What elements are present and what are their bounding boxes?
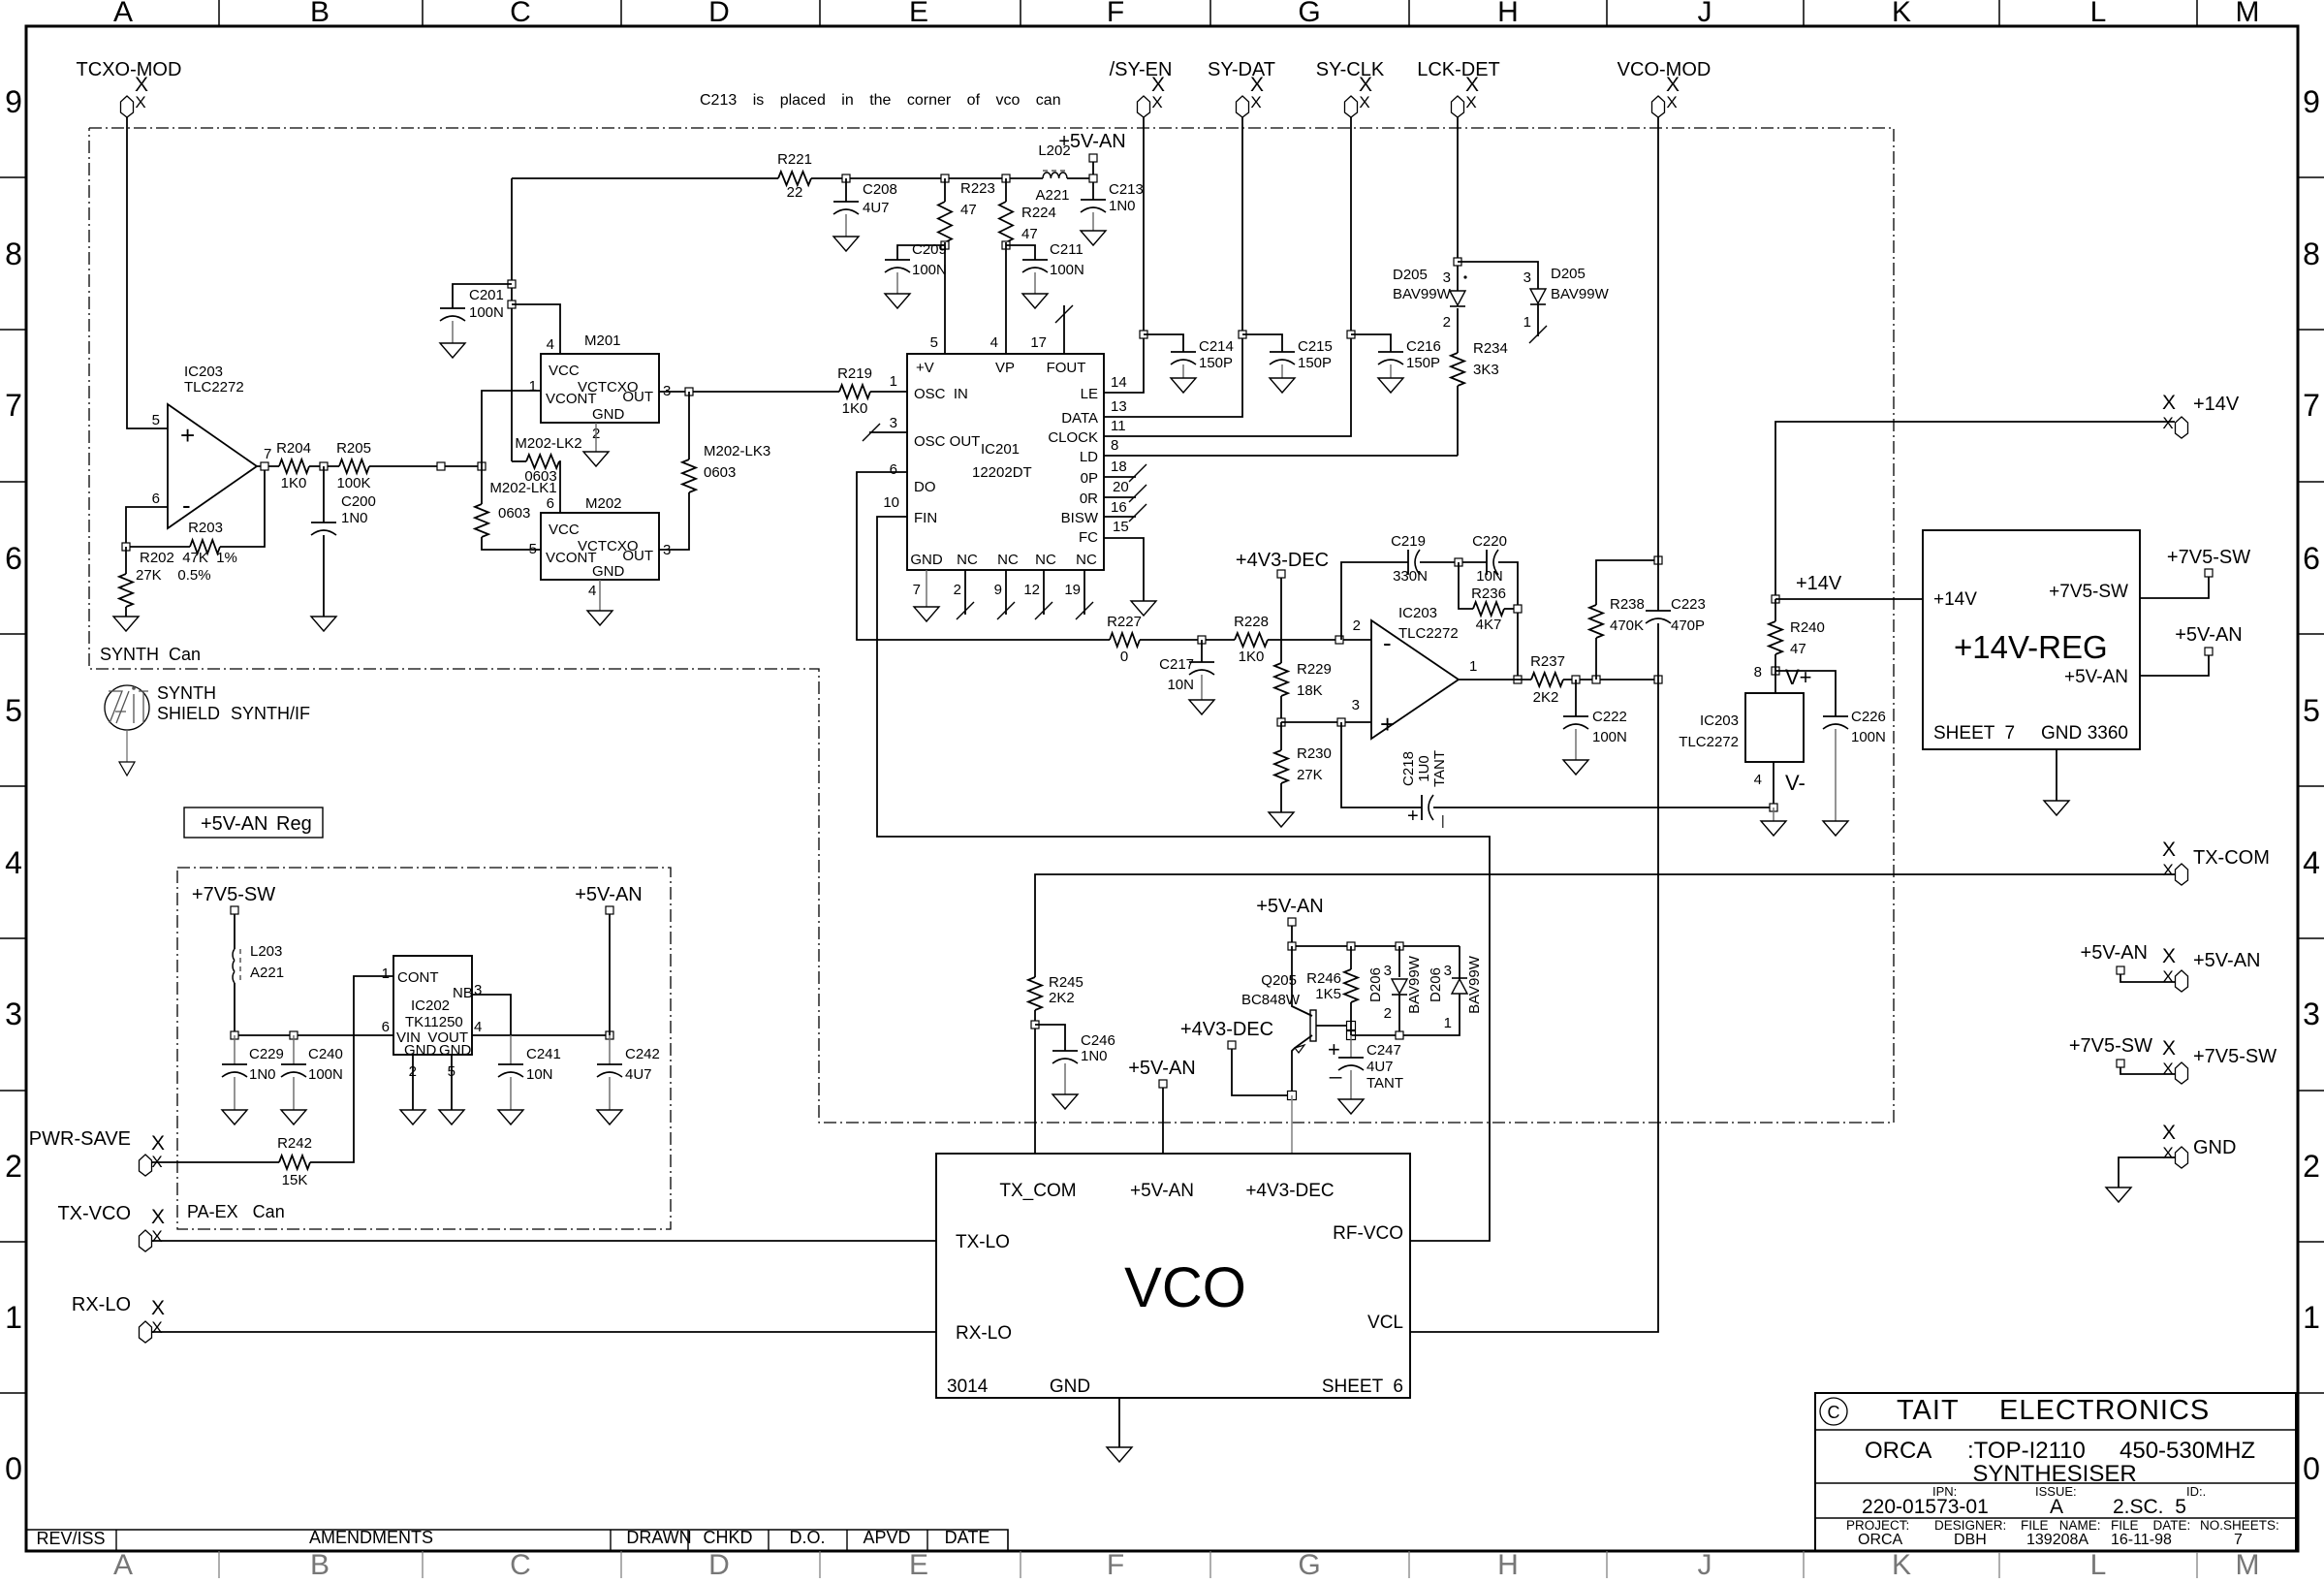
svg-text:+: + xyxy=(1380,710,1395,739)
junction xyxy=(1140,331,1147,338)
svg-text:4U7: 4U7 xyxy=(863,200,890,216)
capacitor C200 1N0 xyxy=(323,466,325,522)
capacitor C242 4U7 xyxy=(609,1035,611,1064)
svg-text:220-01573-01: 220-01573-01 xyxy=(1862,1496,1989,1518)
svg-text:C220: C220 xyxy=(1472,533,1507,550)
wire xyxy=(1774,654,1776,693)
svg-text:0R: 0R xyxy=(1080,491,1098,507)
svg-text:A221: A221 xyxy=(250,965,284,981)
svg-text:GND: GND xyxy=(592,406,625,423)
ground xyxy=(2106,1187,2131,1202)
svg-text:0: 0 xyxy=(1120,649,1128,665)
wire to CONT xyxy=(310,976,393,1162)
svg-text:10N: 10N xyxy=(1476,568,1503,585)
wire VCO GND xyxy=(1118,1398,1120,1447)
svg-text:BAV99W: BAV99W xyxy=(1393,286,1452,302)
svg-text:3014: 3014 xyxy=(947,1377,989,1397)
capacitor C246 1N0 xyxy=(1035,1025,1065,1051)
svg-text:C247: C247 xyxy=(1366,1042,1401,1059)
svg-text:AMENDMENTS: AMENDMENTS xyxy=(309,1528,433,1547)
svg-text:+: + xyxy=(180,421,195,450)
junction xyxy=(1089,174,1097,182)
junction xyxy=(1335,636,1343,644)
svg-text:R227: R227 xyxy=(1107,614,1142,630)
svg-text:20: 20 xyxy=(1113,479,1129,495)
resistor R219 1K0 xyxy=(839,385,870,398)
svg-text:0P: 0P xyxy=(1081,470,1098,487)
svg-text:8: 8 xyxy=(2303,237,2320,271)
svg-text:TX-COM: TX-COM xyxy=(2193,847,2270,869)
svg-text:2: 2 xyxy=(1443,314,1451,331)
wire LE to /SY-EN xyxy=(1104,117,1144,393)
svg-text:2: 2 xyxy=(1384,1005,1392,1022)
svg-text:47: 47 xyxy=(1021,226,1038,242)
wire to op-amp minus xyxy=(1268,639,1371,641)
svg-text:R234: R234 xyxy=(1473,340,1508,357)
resistor R242 15K xyxy=(279,1156,310,1169)
wire R224 to VP pin4 xyxy=(1005,242,1007,354)
svg-text:18: 18 xyxy=(1111,459,1127,475)
resistor R230 27K xyxy=(1280,722,1282,750)
svg-text:+14V: +14V xyxy=(2193,394,2240,415)
svg-text:DATE: DATE xyxy=(945,1528,990,1547)
svg-text:X: X xyxy=(151,1206,165,1228)
svg-text:APVD: APVD xyxy=(863,1528,910,1547)
svg-text:2.SC. 5: 2.SC. 5 xyxy=(2113,1496,2186,1518)
pin no-connect stub xyxy=(1104,496,1136,498)
svg-text:R221: R221 xyxy=(777,151,812,168)
svg-text:1: 1 xyxy=(890,373,897,390)
svg-text:17: 17 xyxy=(1030,334,1047,351)
svg-text:SYNTH Can: SYNTH Can xyxy=(100,645,201,664)
wire xyxy=(309,465,339,467)
wire VCONT link to M201 xyxy=(482,391,541,466)
svg-text:GND: GND xyxy=(404,1042,437,1059)
svg-text:BISW: BISW xyxy=(1061,510,1099,526)
svg-text:4: 4 xyxy=(547,336,554,353)
svg-text:8: 8 xyxy=(5,237,22,271)
svg-text:R224: R224 xyxy=(1021,205,1056,221)
svg-text:5: 5 xyxy=(2303,693,2320,728)
wire PWR-SAVE xyxy=(152,1161,279,1163)
junction xyxy=(261,462,268,470)
svg-text:R230: R230 xyxy=(1297,745,1332,762)
ground xyxy=(1052,1094,1078,1109)
svg-text:SY-DAT: SY-DAT xyxy=(1208,59,1275,80)
junction xyxy=(231,1031,238,1039)
ground xyxy=(1131,601,1156,616)
svg-text:R203: R203 xyxy=(188,520,223,536)
svg-text:3: 3 xyxy=(1352,697,1360,713)
junction xyxy=(1772,667,1779,675)
svg-text:2: 2 xyxy=(1353,617,1361,634)
svg-text:LCK-DET: LCK-DET xyxy=(1417,59,1500,80)
svg-text:L: L xyxy=(2090,1549,2107,1578)
svg-text:REV/ISS: REV/ISS xyxy=(36,1529,105,1548)
no-connect xyxy=(1537,304,1539,336)
wire xyxy=(2120,974,2176,982)
svg-text:2K2: 2K2 xyxy=(1533,689,1559,706)
pin no-connect stub xyxy=(1104,476,1136,478)
svg-text:4: 4 xyxy=(990,334,998,351)
svg-text:100N: 100N xyxy=(469,304,504,321)
svg-text:R223: R223 xyxy=(960,180,995,197)
svg-text:16: 16 xyxy=(1111,499,1127,516)
ground xyxy=(1338,1099,1364,1114)
svg-text:X: X xyxy=(2162,414,2173,432)
capacitor C213 1N0 xyxy=(1092,178,1094,200)
svg-text:X: X xyxy=(151,1318,162,1337)
svg-text:1: 1 xyxy=(1523,314,1531,331)
svg-text:X: X xyxy=(151,1297,165,1319)
svg-text:+5V-AN: +5V-AN xyxy=(2081,942,2148,964)
svg-text:F: F xyxy=(1107,0,1124,28)
svg-text:A: A xyxy=(113,1549,133,1578)
svg-text:10: 10 xyxy=(883,494,899,511)
junction xyxy=(1454,258,1461,266)
svg-text:+5V-AN: +5V-AN xyxy=(1130,1181,1194,1201)
svg-text:D: D xyxy=(708,1549,730,1578)
svg-text:C: C xyxy=(510,0,531,28)
svg-text:12202DT: 12202DT xyxy=(972,464,1032,481)
svg-text:R240: R240 xyxy=(1790,619,1825,636)
capacitor C222 100N xyxy=(1575,680,1577,716)
svg-text:OSC OUT: OSC OUT xyxy=(914,433,980,450)
junction xyxy=(941,241,949,249)
svg-text:X: X xyxy=(2162,839,2176,861)
svg-text:1: 1 xyxy=(382,966,390,982)
svg-text:9: 9 xyxy=(994,582,1002,598)
svg-text:+5V-AN: +5V-AN xyxy=(1256,896,1323,917)
svg-text:+V: +V xyxy=(916,360,934,376)
wire M201 OUT row xyxy=(659,391,839,393)
svg-text:C223: C223 xyxy=(1671,596,1706,613)
ground xyxy=(1270,378,1295,393)
resistor R203 47K 1% (feedback) xyxy=(126,546,190,548)
junction xyxy=(122,543,130,551)
svg-text:+7V5-SW: +7V5-SW xyxy=(2069,1035,2152,1057)
net +5V-AN xyxy=(1089,154,1097,162)
wire to VCO xyxy=(1291,1095,1293,1154)
svg-text:R219: R219 xyxy=(837,365,872,382)
svg-text:C211: C211 xyxy=(1050,241,1083,258)
svg-text:4: 4 xyxy=(1754,772,1762,788)
svg-text:+5V-AN: +5V-AN xyxy=(575,884,642,905)
junction xyxy=(1654,556,1662,564)
svg-text:RX-LO: RX-LO xyxy=(72,1294,131,1315)
svg-text:NC: NC xyxy=(957,552,978,568)
svg-text:SYNTH: SYNTH xyxy=(157,683,216,703)
diode D206 BAV99W (b) xyxy=(1459,946,1460,979)
svg-text:5: 5 xyxy=(529,541,537,557)
svg-text:|: | xyxy=(1441,812,1445,828)
wire NB to VOUT xyxy=(472,995,511,1035)
svg-text:100N: 100N xyxy=(1050,262,1084,278)
junction xyxy=(1770,804,1777,811)
svg-text:H: H xyxy=(1497,1549,1519,1578)
svg-text:VCONT: VCONT xyxy=(546,550,597,566)
svg-text:GND: GND xyxy=(1050,1377,1090,1397)
svg-text:C: C xyxy=(1828,1403,1840,1422)
svg-text:CHKD: CHKD xyxy=(703,1528,752,1547)
svg-text:R204: R204 xyxy=(276,440,311,457)
wire to OSC IN xyxy=(870,391,907,393)
svg-text:9: 9 xyxy=(2303,84,2320,119)
wire TX-VCO to TX-LO xyxy=(152,1240,936,1242)
svg-text:X: X xyxy=(2162,1037,2176,1060)
wire xyxy=(1232,1049,1292,1095)
ground xyxy=(440,343,465,358)
ground xyxy=(1081,231,1106,245)
svg-text:13: 13 xyxy=(1111,398,1127,415)
svg-text:470K: 470K xyxy=(1610,617,1644,634)
svg-text:+4V3-DEC: +4V3-DEC xyxy=(1236,550,1329,571)
svg-text:IC203: IC203 xyxy=(1700,712,1739,729)
wire xyxy=(811,177,1043,179)
svg-text:D: D xyxy=(708,0,730,28)
svg-text:J: J xyxy=(1698,1549,1712,1578)
junction xyxy=(1288,942,1296,950)
wire op-amp minus input xyxy=(126,507,168,547)
svg-text:C241: C241 xyxy=(526,1046,561,1062)
svg-text:1: 1 xyxy=(5,1300,22,1335)
svg-text:ORCA: ORCA xyxy=(1858,1532,1903,1548)
svg-text:3: 3 xyxy=(1444,963,1452,979)
pin OSC OUT no-connect stub xyxy=(869,431,907,433)
ground xyxy=(1761,821,1786,836)
svg-text:4U7: 4U7 xyxy=(625,1066,652,1083)
diode D205 BAV99W (b) xyxy=(1458,262,1538,289)
svg-text:2: 2 xyxy=(954,582,961,598)
svg-text:B: B xyxy=(310,0,330,28)
wire FC pin15 to ground xyxy=(1104,538,1144,601)
ground xyxy=(833,237,859,251)
TAIT shield logo xyxy=(105,685,149,730)
resistor R236 4K7 xyxy=(1459,562,1473,609)
svg-text:X: X xyxy=(151,1132,165,1155)
ground xyxy=(1171,378,1196,393)
svg-text:Reg: Reg xyxy=(276,813,312,835)
label box +5V-AN Reg xyxy=(184,807,323,838)
wire M201 pin2 to ground xyxy=(595,423,597,452)
svg-text:DRAWN: DRAWN xyxy=(626,1528,691,1547)
module M202 VCTCXO xyxy=(541,513,659,580)
ground xyxy=(1107,1447,1132,1462)
svg-text:10N: 10N xyxy=(526,1066,553,1083)
resistor R245 2K2 xyxy=(1028,977,1042,1010)
svg-text:139208A: 139208A xyxy=(2026,1532,2088,1548)
svg-text:1N0: 1N0 xyxy=(1081,1048,1108,1064)
svg-text:H: H xyxy=(1497,0,1519,28)
svg-text:LE: LE xyxy=(1081,386,1098,402)
wire xyxy=(1140,639,1235,641)
svg-text:R237: R237 xyxy=(1530,653,1565,670)
op-amp U IC203a TLC2272 xyxy=(168,404,257,528)
wire xyxy=(1162,1088,1164,1154)
svg-text:NC: NC xyxy=(997,552,1019,568)
svg-text:2K2: 2K2 xyxy=(1049,990,1075,1006)
junction xyxy=(1455,558,1462,566)
svg-text:BAV99W: BAV99W xyxy=(1551,286,1610,302)
svg-text:15: 15 xyxy=(1113,519,1129,535)
svg-text:D.O.: D.O. xyxy=(789,1528,825,1547)
svg-text:7: 7 xyxy=(2303,388,2320,423)
capacitor C219 330N xyxy=(1407,550,1409,575)
svg-text:C219: C219 xyxy=(1391,533,1426,550)
svg-text:15K: 15K xyxy=(282,1172,308,1188)
wire xyxy=(1457,117,1459,291)
ground xyxy=(885,294,910,308)
svg-text:M202-LK2: M202-LK2 xyxy=(515,435,581,452)
junction xyxy=(1396,1031,1403,1039)
svg-text:X: X xyxy=(2162,967,2173,986)
svg-text:R229: R229 xyxy=(1297,661,1332,678)
svg-text:3: 3 xyxy=(474,982,482,998)
svg-text:TANT: TANT xyxy=(1431,750,1448,787)
junction xyxy=(1239,331,1246,338)
svg-text:GND: GND xyxy=(910,552,943,568)
ground xyxy=(1823,821,1848,836)
module M201 VCTCXO xyxy=(541,354,659,423)
svg-text:7: 7 xyxy=(2234,1532,2243,1548)
svg-text:22: 22 xyxy=(787,184,803,201)
svg-text:D206: D206 xyxy=(1428,967,1444,1002)
svg-text:10N: 10N xyxy=(1167,677,1194,693)
svg-text:OUT: OUT xyxy=(622,548,653,564)
svg-text:CLOCK: CLOCK xyxy=(1048,429,1098,446)
svg-text:B: B xyxy=(310,1549,330,1578)
wire +14V xyxy=(1775,422,2175,599)
svg-text:150P: 150P xyxy=(1298,355,1332,371)
SYNTH Can shield boundary xyxy=(89,128,1894,1123)
resistor R234 3K3 xyxy=(1451,353,1464,386)
wire GND port xyxy=(2119,1157,2175,1187)
svg-text:PWR-SAVE: PWR-SAVE xyxy=(29,1128,131,1150)
capacitor C220 10N xyxy=(1486,550,1488,575)
junction xyxy=(1337,718,1345,726)
svg-text:470P: 470P xyxy=(1671,617,1705,634)
svg-text:SHEET 6: SHEET 6 xyxy=(1322,1377,1403,1397)
svg-text:X: X xyxy=(2162,1144,2173,1162)
diode D206 BAV99W (a) xyxy=(1398,946,1400,977)
svg-text:2: 2 xyxy=(5,1149,22,1184)
svg-text:C218: C218 xyxy=(1400,751,1417,786)
wire op-amp output row xyxy=(257,465,279,467)
svg-text:+14V: +14V xyxy=(1796,573,1842,594)
svg-text:OUT: OUT xyxy=(622,389,653,405)
resistor R238 470K xyxy=(1595,638,1597,680)
wire xyxy=(235,983,393,1035)
svg-text:SHIELD: SHIELD xyxy=(157,704,220,723)
svg-text:6: 6 xyxy=(890,461,897,478)
svg-text:FILE NAME:: FILE NAME: xyxy=(2021,1518,2101,1533)
svg-text:1K0: 1K0 xyxy=(1239,649,1265,665)
svg-text:SHEET 7: SHEET 7 xyxy=(1933,723,2015,744)
wire +5V rail vertical x528 xyxy=(511,178,513,461)
ground xyxy=(439,1110,464,1124)
wire RX-LO xyxy=(152,1331,936,1333)
wire +14V to regulator xyxy=(1775,598,1923,600)
resistor R227 0 xyxy=(1110,633,1140,647)
svg-text:R228: R228 xyxy=(1234,614,1269,630)
svg-text:1N0: 1N0 xyxy=(249,1066,276,1083)
svg-text:+5V-AN: +5V-AN xyxy=(2175,624,2242,646)
svg-text:6: 6 xyxy=(2303,541,2320,576)
wire xyxy=(369,465,482,467)
junction xyxy=(1347,331,1355,338)
ground xyxy=(119,762,135,776)
svg-text:3: 3 xyxy=(1523,269,1531,286)
svg-text:VCO-MOD: VCO-MOD xyxy=(1617,59,1712,80)
svg-text:C215: C215 xyxy=(1298,338,1333,355)
ground xyxy=(222,1110,247,1124)
svg-text:0: 0 xyxy=(5,1451,22,1486)
svg-text:5: 5 xyxy=(930,334,938,351)
svg-text:+7V5-SW: +7V5-SW xyxy=(2193,1046,2277,1067)
svg-text:TK11250: TK11250 xyxy=(405,1014,463,1030)
wire xyxy=(1498,562,1518,680)
resistor R223 47 xyxy=(944,178,946,202)
junction xyxy=(606,1031,613,1039)
svg-text:0603: 0603 xyxy=(704,464,736,481)
block VCO xyxy=(936,1154,1410,1398)
svg-text:M: M xyxy=(2236,1549,2260,1578)
capacitor C217 10N xyxy=(1201,640,1203,662)
ground xyxy=(400,1110,425,1124)
svg-text:19: 19 xyxy=(1064,582,1081,598)
svg-text:150P: 150P xyxy=(1199,355,1233,371)
feedback net wire xyxy=(1341,562,1408,640)
svg-text:TLC2272: TLC2272 xyxy=(1398,625,1459,642)
wire xyxy=(1563,679,1658,681)
svg-text:5: 5 xyxy=(5,693,22,728)
svg-text:C216: C216 xyxy=(1406,338,1441,355)
svg-text:C242: C242 xyxy=(625,1046,660,1062)
junction xyxy=(1572,676,1580,683)
svg-text:M202: M202 xyxy=(585,495,622,512)
svg-text:VCO: VCO xyxy=(1124,1256,1246,1319)
svg-text:1U0: 1U0 xyxy=(1416,755,1432,782)
wire +5V rail xyxy=(1292,926,1460,946)
net +5V-AN xyxy=(2205,648,2213,655)
title block xyxy=(1815,1393,2296,1551)
svg-text:NC: NC xyxy=(1035,552,1056,568)
svg-text:+: + xyxy=(1407,806,1419,827)
wire DO / FIN counter output row xyxy=(857,472,1110,640)
svg-text:GND: GND xyxy=(592,563,625,580)
svg-text:C201: C201 xyxy=(469,287,504,303)
amendments table xyxy=(26,1530,1008,1551)
svg-text:GND: GND xyxy=(439,1042,472,1059)
resistor R224 47 xyxy=(1005,178,1007,202)
svg-text:GND: GND xyxy=(2041,723,2082,744)
resistor M202-LK2 0603 xyxy=(512,460,526,462)
svg-text:DESIGNER:: DESIGNER: xyxy=(1934,1518,2006,1533)
svg-text:M202-LK3: M202-LK3 xyxy=(704,443,770,459)
svg-text:ORCA: ORCA xyxy=(1865,1438,1931,1464)
svg-text:+4V3-DEC: +4V3-DEC xyxy=(1245,1181,1334,1201)
wire VOUT rail xyxy=(472,1034,610,1036)
svg-text:+4V3-DEC: +4V3-DEC xyxy=(1180,1019,1273,1040)
svg-text:18K: 18K xyxy=(1297,682,1323,699)
svg-text:6: 6 xyxy=(152,491,160,507)
capacitor C209 100N xyxy=(897,245,945,260)
svg-text:12: 12 xyxy=(1023,582,1040,598)
capacitor C229 1N0 xyxy=(234,1035,236,1064)
svg-text:4: 4 xyxy=(474,1019,482,1035)
svg-text:1: 1 xyxy=(2303,1300,2320,1335)
svg-text:IC203: IC203 xyxy=(184,364,223,380)
